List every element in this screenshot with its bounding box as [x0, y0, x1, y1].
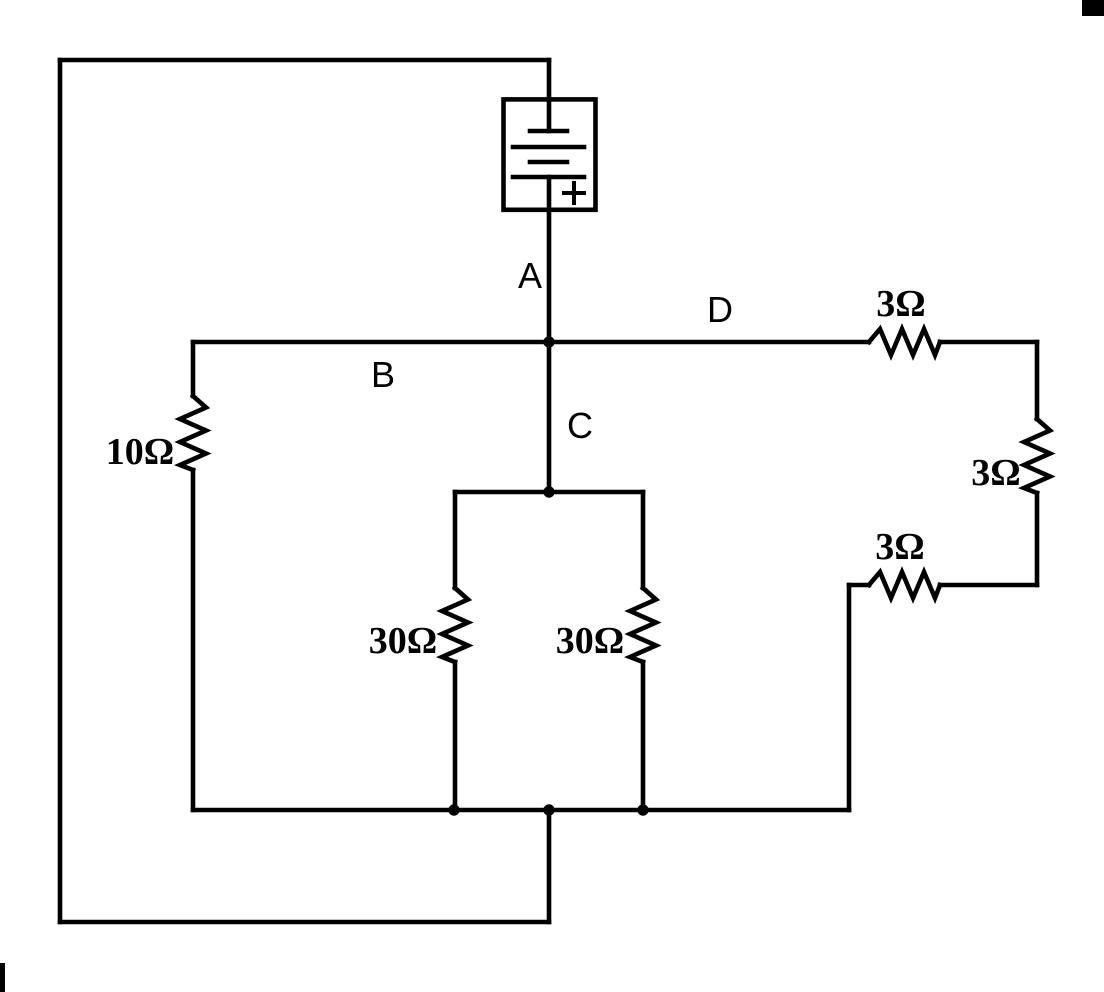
svg-text:3Ω: 3Ω — [971, 452, 1020, 494]
svg-text:30Ω: 30Ω — [556, 620, 624, 662]
wire bottom bus — [193, 808, 849, 813]
junction bottom center dot — [543, 804, 554, 815]
battery plate long 2 — [513, 175, 584, 180]
battery V1 box — [504, 99, 596, 209]
svg-text:3Ω: 3Ω — [876, 283, 925, 325]
svg-text:30Ω: 30Ω — [369, 620, 437, 662]
battery internal bottom lead — [547, 177, 552, 210]
junction bottom left dot — [448, 804, 459, 815]
wire right vertical lower — [1035, 493, 1040, 585]
wire top right to corner — [940, 340, 1037, 345]
svg-text:3Ω: 3Ω — [875, 526, 924, 568]
wire battery top lead — [547, 60, 552, 99]
wire node C vertical — [547, 342, 552, 492]
wire inner left branch upper — [453, 492, 458, 588]
svg-text:C: C — [567, 405, 593, 446]
resistor 30ohm right zigzag — [630, 588, 656, 662]
resistor 3ohm top horizontal zigzag — [869, 329, 940, 355]
wire outer left vertical — [58, 60, 63, 922]
battery plate short 1 — [530, 129, 567, 134]
svg-text:10Ω: 10Ω — [106, 431, 174, 473]
wire node B horizontal — [193, 340, 549, 345]
wire node D horizontal to resistor — [549, 340, 869, 345]
svg-text:A: A — [518, 255, 542, 296]
wire battery to node A junction — [547, 210, 552, 342]
wire outer top horizontal — [60, 58, 549, 63]
wire inner box top — [455, 490, 643, 495]
wire inner left branch lower — [453, 662, 458, 810]
wire middle right horizontal — [940, 583, 1037, 588]
wire left branch lower — [191, 470, 196, 810]
battery plate short 2 — [530, 160, 567, 165]
wire outer bottom horizontal — [60, 920, 549, 925]
svg-text:D: D — [707, 289, 733, 330]
screenshot artifact top right — [1082, 0, 1104, 16]
junction node A dot — [543, 336, 554, 347]
resistor 30ohm left zigzag — [442, 588, 468, 662]
resistor 3ohm right vertical zigzag — [1024, 419, 1050, 493]
junction bottom right dot — [637, 804, 648, 815]
wire right branch drop to bottom bus — [847, 585, 852, 810]
svg-text:B: B — [371, 354, 395, 395]
resistor 10ohm zigzag — [180, 396, 206, 470]
battery plus sign — [564, 183, 584, 203]
wire inner right branch lower — [641, 662, 646, 810]
wire inner right branch upper — [641, 492, 646, 588]
screenshot artifact bottom left — [0, 963, 5, 992]
wire right vertical upper — [1035, 342, 1040, 419]
wire left branch upper — [191, 342, 196, 396]
junction node C dot — [543, 486, 554, 497]
wire outer right riser to bottom bus — [547, 810, 552, 922]
battery internal top lead — [547, 99, 552, 131]
battery plate long 1 — [513, 145, 584, 150]
wire middle stub to corner — [849, 583, 869, 588]
resistor 3ohm middle horizontal zigzag — [869, 572, 940, 598]
